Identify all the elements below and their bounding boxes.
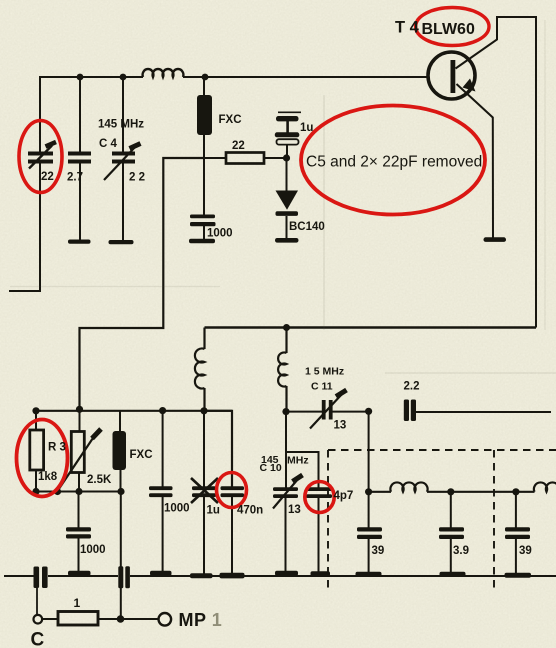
svg-text:1u: 1u: [300, 122, 313, 134]
node dots filter row: [447, 488, 519, 495]
bus bar: [150, 571, 172, 576]
capacitor 2.7: [79, 77, 81, 152]
potentiometer 2.5K: [79, 409, 81, 431]
ground bar under 2.7: [68, 240, 91, 244]
capacitor 1u (crossed out): [203, 411, 205, 487]
scan artifacts: faint lines: [10, 20, 556, 373]
transistor T4 BLW60: [428, 52, 475, 99]
svg-text:C5 and 2× 22pF removed: C5 and 2× 22pF removed: [306, 154, 482, 171]
capacitor 1000 (under node 162.6): [162, 411, 164, 487]
svg-text:FXC: FXC: [130, 449, 153, 461]
capacitor C10 (variable, 13): [273, 487, 298, 498]
wire: main base line y=77: [40, 76, 428, 78]
annotation: red ellipse around BLW60: [416, 8, 489, 46]
svg-text:2.2: 2.2: [404, 381, 420, 393]
node at (368.6,491.8): [365, 488, 372, 495]
node at (368.6,411.3): [365, 408, 372, 415]
svg-text:BC140: BC140: [289, 221, 325, 233]
svg-text:2.7: 2.7: [67, 172, 83, 184]
inductor L1 on base line: [143, 69, 184, 77]
svg-text:13: 13: [334, 420, 347, 432]
capacitor C4 145MHz: [122, 77, 124, 152]
svg-text:39: 39: [519, 545, 532, 557]
emitter path with arrow, down to ground: [457, 84, 494, 238]
svg-text:13: 13: [288, 504, 301, 516]
annotation: red ellipse around trimmer 22: [19, 121, 62, 193]
svg-text:C 10: C 10: [260, 462, 282, 474]
svg-text:1k8: 1k8: [38, 471, 58, 483]
svg-text:1u: 1u: [207, 505, 220, 517]
wire to right edge: [416, 411, 551, 413]
capacitor C11 (variable, 13): [322, 400, 333, 420]
svg-text:3.9: 3.9: [453, 545, 469, 557]
svg-text:470n: 470n: [237, 505, 263, 517]
wire trimmer down and left stub: [9, 163, 41, 291]
annotation: red ellipse C5 removed: [301, 106, 485, 215]
capacitor 4p7 (circled): [306, 487, 332, 498]
capacitor 1000 (top): [203, 158, 205, 215]
series capacitor B (on bus): [118, 566, 130, 588]
svg-text:1000: 1000: [164, 503, 190, 515]
node at (286,158): [283, 154, 290, 161]
svg-text:2 2: 2 2: [129, 172, 145, 184]
svg-text:C 4: C 4: [99, 138, 118, 150]
wire: vertical x=368.6 down through filter row: [368, 411, 370, 528]
terminal MP1 (open circle): [159, 613, 172, 626]
annotation: red ellipse around 470n: [217, 473, 247, 508]
capacitor 470n (circled): [204, 411, 232, 487]
capacitor 1000 (under 2.5K): [78, 492, 80, 529]
collector path up to right rail and down: [456, 17, 537, 328]
wire y=491.5: [36, 491, 121, 493]
svg-text:4p7: 4p7: [334, 490, 354, 502]
wire: link down from node 286 to C10 and 4p7: [286, 412, 319, 488]
ground bar under BC140: [275, 238, 299, 243]
diode BC140: [286, 158, 288, 191]
choke FXC (top): [203, 77, 205, 96]
dashed screening box: [328, 450, 556, 588]
wire: FXC down to MP1 row: [120, 492, 122, 620]
svg-text:145 MHz: 145 MHz: [98, 119, 144, 131]
bus line y=576: [4, 575, 556, 577]
ground bar under emitter: [484, 237, 507, 242]
node on y=327.5: [283, 324, 290, 331]
svg-text:MP 1: MP 1: [179, 610, 223, 630]
svg-text:22: 22: [41, 171, 54, 183]
capacitor 39 #3: [515, 492, 517, 528]
resistor R3 1k8: [35, 411, 37, 430]
capacitor 2.2 (series): [404, 400, 416, 422]
capacitor C5 1u (floating top): [278, 111, 301, 113]
cross-out X over 1u: [191, 478, 218, 503]
svg-text:BLW60: BLW60: [422, 21, 475, 38]
inductor L5 (right edge): [534, 482, 556, 491]
wire C11 row: [286, 411, 369, 413]
svg-text:FXC: FXC: [219, 114, 242, 126]
node junction dots on base line: [77, 74, 209, 81]
terminal C (open circle): [34, 615, 43, 624]
trimmer capacitor 22 (circled): [28, 152, 53, 164]
svg-text:MHz: MHz: [287, 455, 309, 467]
bus bar under 1000: [68, 571, 91, 576]
capacitor 39 #1: [357, 527, 382, 539]
inductor L2 (x=204.5): [195, 328, 205, 411]
svg-text:C: C: [31, 630, 45, 648]
annotation: red ellipse around 4p7: [305, 482, 334, 513]
svg-text:C 11: C 11: [311, 381, 333, 393]
ground bar under 1000: [189, 239, 215, 243]
svg-text:R 3: R 3: [48, 442, 66, 454]
wire: big Z from node (204,158) to bottom bus: [80, 158, 205, 409]
inductor L3 (x=286): [278, 328, 286, 412]
svg-text:22: 22: [232, 140, 245, 152]
wire: long horizontal y=327.5: [205, 326, 537, 328]
resistor 1: [42, 618, 58, 620]
wire filter row + inductor L4: [369, 482, 535, 491]
svg-text:1000: 1000: [207, 228, 233, 240]
series capacitor A (on bus): [34, 567, 48, 589]
svg-text:2.5K: 2.5K: [87, 474, 112, 486]
svg-text:T 4: T 4: [395, 19, 420, 37]
node at (120.5,619): [117, 615, 125, 623]
capacitor 39 #2: [450, 492, 452, 528]
annotation: red ellipse around R3: [17, 420, 68, 497]
node dots on bus: [32, 406, 207, 415]
wire: bottom bus y=410.5: [36, 410, 232, 412]
wire to resistor 22: [204, 157, 226, 159]
svg-text:1000: 1000: [80, 544, 106, 556]
svg-text:1: 1: [74, 596, 81, 610]
wire: drop from cap A to terminal C: [36, 588, 38, 615]
svg-text:1 5 MHz: 1 5 MHz: [305, 366, 344, 378]
ground bar under C4: [109, 240, 134, 244]
choke FXC (bottom): [119, 411, 121, 432]
svg-text:39: 39: [372, 545, 385, 557]
wire: left corner down to trimmer: [39, 76, 41, 152]
node at (286,411.6): [282, 408, 289, 415]
resistor 22: [226, 153, 264, 164]
